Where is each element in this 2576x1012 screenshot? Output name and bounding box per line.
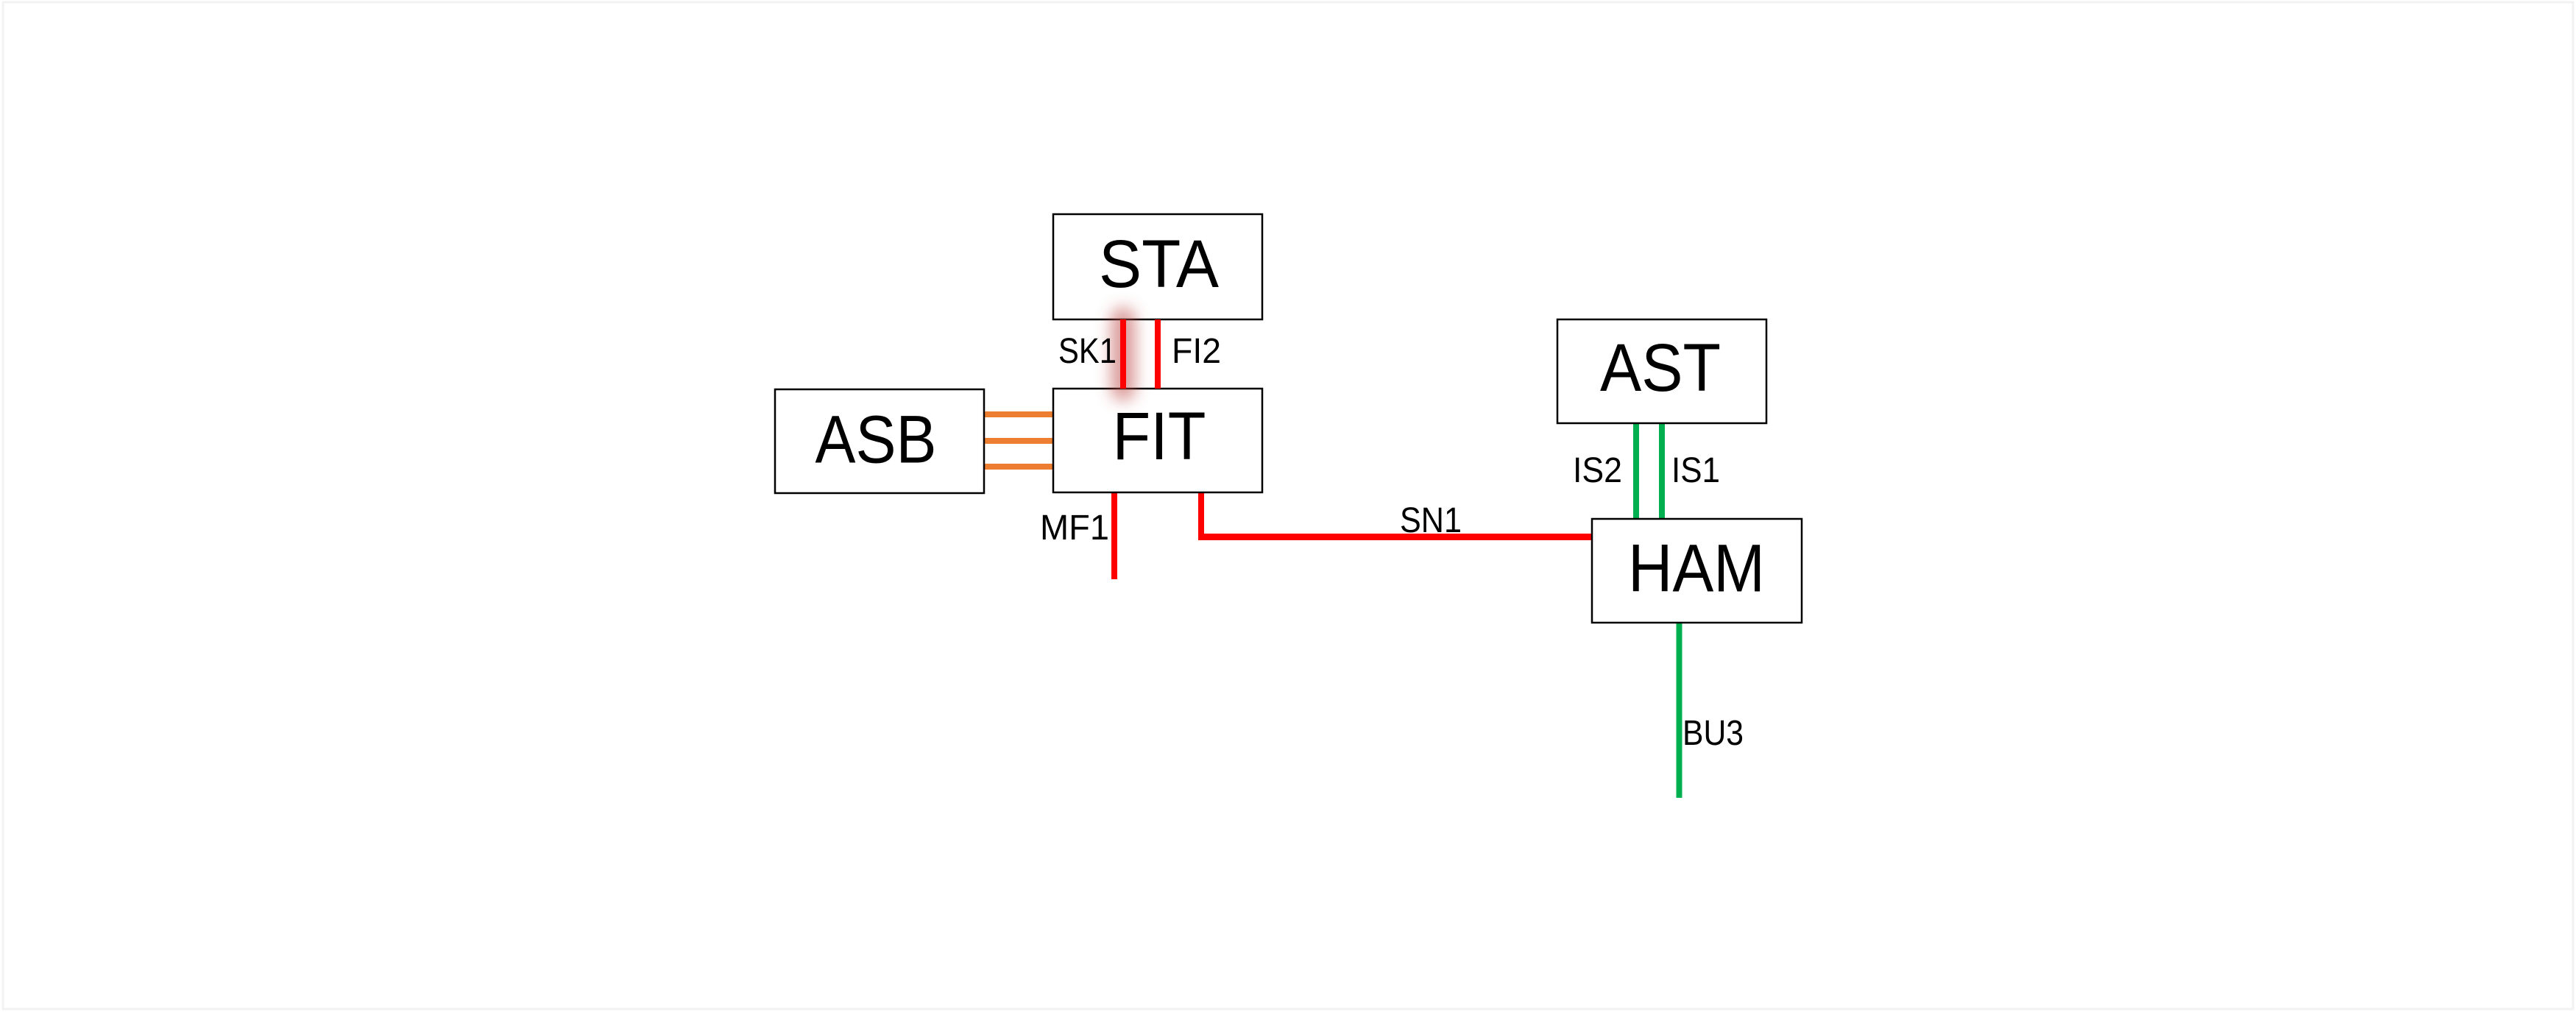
wire SK1 (red) [1120, 319, 1126, 389]
svg-text:BU3: BU3 [1682, 714, 1744, 753]
svg-text:FI2: FI2 [1172, 332, 1221, 371]
svg-text:IS1: IS1 [1671, 451, 1720, 490]
svg-text:SK1: SK1 [1058, 332, 1117, 371]
wire ASB-FIT link 1 (orange) [984, 411, 1053, 417]
node ASB [775, 389, 984, 493]
wire IS1 (green) [1659, 423, 1665, 519]
wire MF1 (red stub) [1111, 492, 1117, 579]
svg-text:ASB: ASB [815, 403, 937, 478]
wire BU3 (green stub) [1677, 623, 1682, 798]
svg-text:STA: STA [1099, 227, 1219, 302]
wire SN1 horizontal (red) [1198, 534, 1592, 540]
svg-text:FIT: FIT [1113, 399, 1206, 474]
node HAM [1592, 519, 1802, 623]
wire IS2 (green) [1633, 423, 1639, 519]
node FIT [1053, 389, 1262, 492]
wire FI2 (red) [1155, 319, 1161, 389]
wire ASB-FIT link 3 (orange) [984, 464, 1053, 470]
svg-text:MF1: MF1 [1040, 509, 1109, 548]
wire ASB-FIT link 2 (orange) [984, 438, 1053, 444]
glow highlight on link SK1 [1111, 319, 1136, 389]
svg-text:SN1: SN1 [1400, 501, 1462, 540]
node STA [1053, 214, 1262, 319]
svg-text:AST: AST [1600, 330, 1721, 406]
wire SN1 vertical elbow (red) [1198, 492, 1204, 540]
svg-text:IS2: IS2 [1573, 451, 1622, 490]
node AST [1557, 319, 1766, 423]
svg-text:HAM: HAM [1628, 531, 1765, 606]
